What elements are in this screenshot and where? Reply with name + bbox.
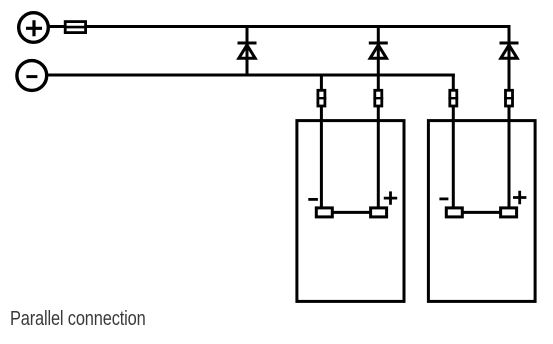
- panel PV2 outline: [428, 121, 535, 302]
- connector panel2 negative: [448, 90, 458, 106]
- connector panel1 positive: [373, 90, 383, 106]
- panel PV1 outline: [297, 121, 404, 302]
- connector panel1 negative: [317, 90, 327, 106]
- wire diode branch 1: [246, 25, 249, 77]
- wire panel2 terminal link: [462, 211, 500, 214]
- label panel2 plus: [513, 191, 526, 204]
- terminal block panel1 negative: [316, 208, 332, 217]
- diode D2: [369, 43, 388, 58]
- wire panel2 negative lead: [452, 74, 455, 208]
- diode D3: [500, 43, 519, 58]
- terminal block panel2 negative: [446, 208, 462, 217]
- fuse F1: [64, 22, 87, 33]
- terminal block panel2 positive: [501, 208, 517, 217]
- wire negative bus: [47, 74, 455, 77]
- label panel2 minus: [439, 197, 448, 200]
- wire positive bus: [48, 25, 510, 28]
- connector panel2 positive: [504, 90, 514, 106]
- wire diode branch 2 / panel1 positive lead: [377, 25, 380, 208]
- wire diode branch 3 / panel2 positive lead: [508, 25, 511, 208]
- label panel1 minus: [308, 198, 318, 201]
- caption text: [10, 307, 146, 331]
- wire panel1 terminal link: [332, 211, 370, 214]
- wire panel1 negative lead: [320, 74, 323, 208]
- label panel1 plus: [384, 191, 397, 204]
- terminal block panel1 positive: [371, 208, 387, 217]
- diode D1: [238, 43, 257, 58]
- positive terminal +: [19, 13, 49, 43]
- negative terminal -: [17, 61, 47, 91]
